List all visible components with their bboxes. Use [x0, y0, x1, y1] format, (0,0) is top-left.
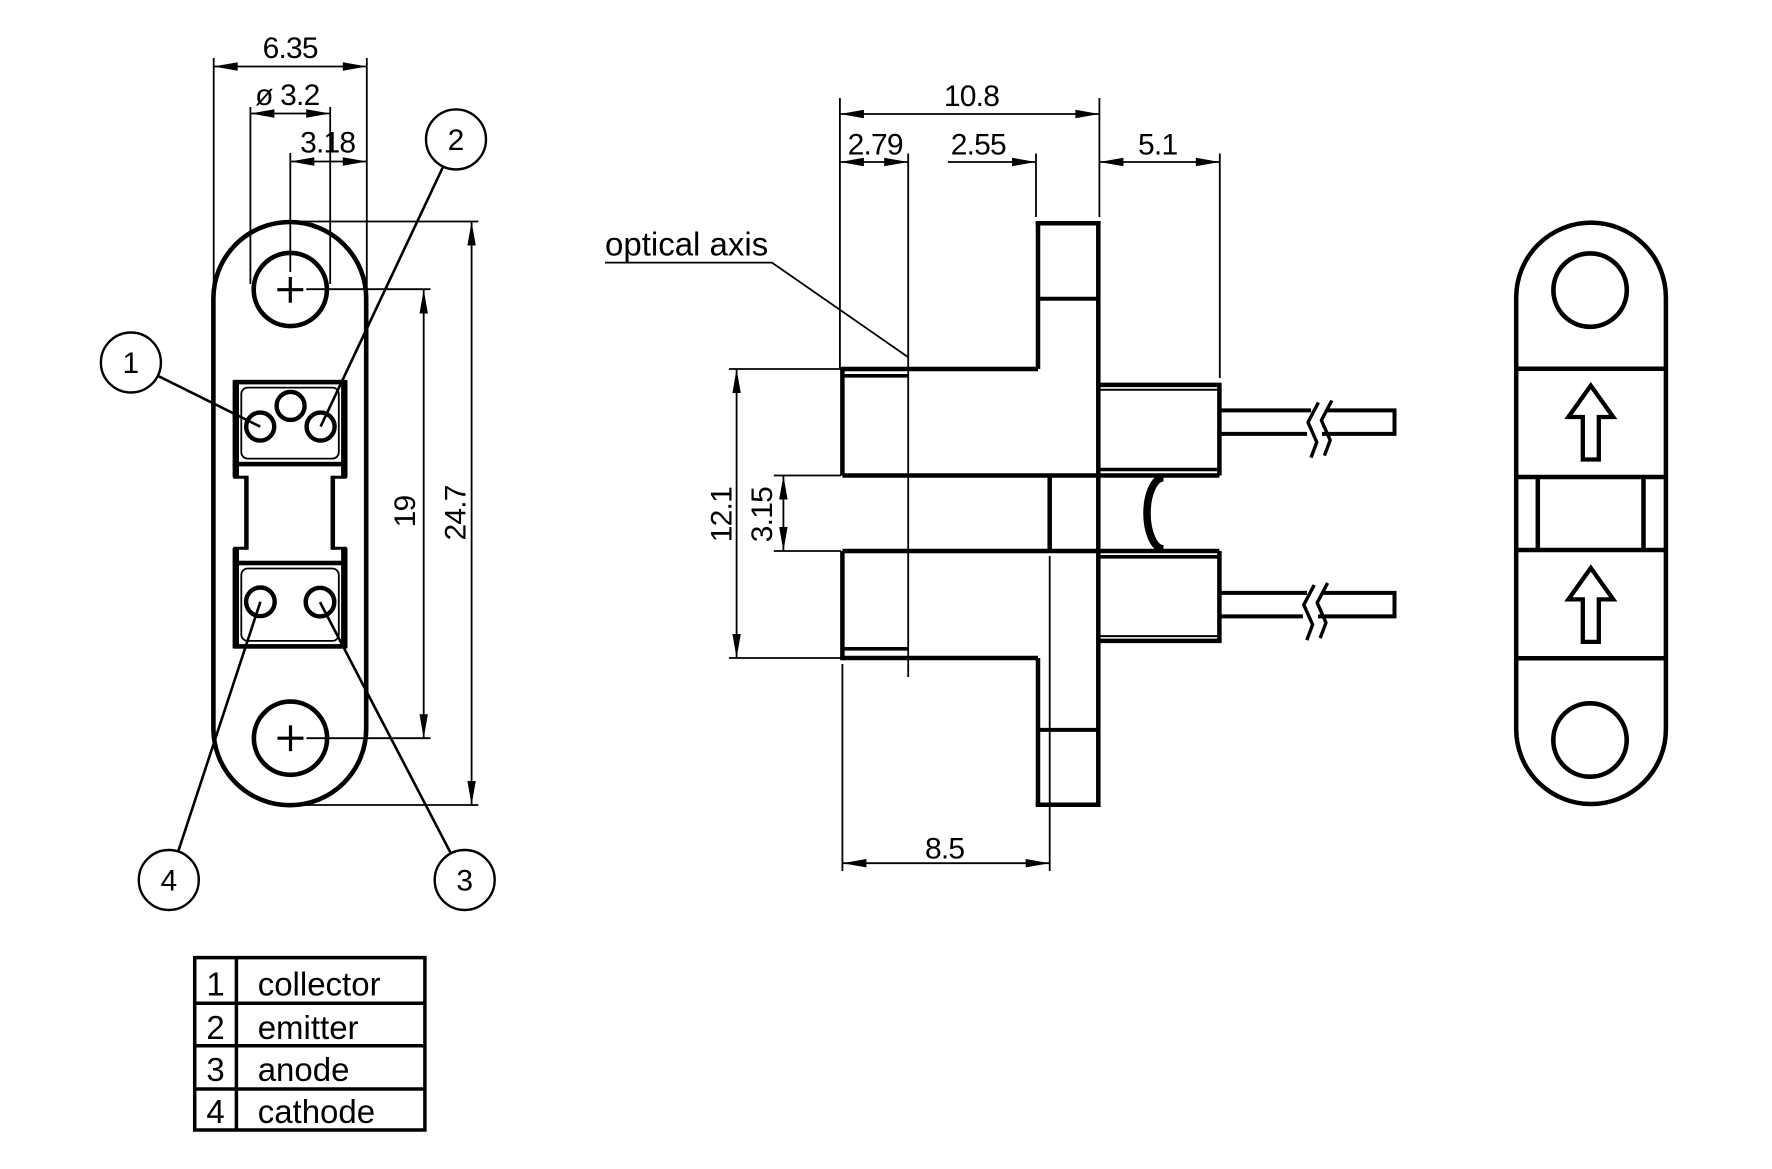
svg-text:2: 2	[206, 1009, 224, 1046]
balloon 1	[101, 333, 161, 393]
lower lead break symbol	[1304, 583, 1328, 640]
rear slot left wall	[1536, 477, 1541, 550]
slot upper inner line (prong side)	[1098, 468, 1219, 472]
top hole crosshair	[277, 277, 303, 303]
svg-text:12.1: 12.1	[705, 487, 738, 542]
pin table borders	[195, 958, 425, 1130]
svg-text:3.15: 3.15	[746, 487, 779, 542]
optical axis centerline	[907, 154, 909, 678]
dimension 2.55 arrowhead	[1012, 158, 1036, 166]
flange top end face	[1036, 221, 1101, 226]
dimension 10.8 lines	[840, 98, 1100, 368]
dimension 2.55 line and extension	[948, 154, 1036, 218]
dimension 24.7 line	[471, 222, 473, 806]
dimension 19 extension lines	[306, 289, 430, 738]
slot top edge	[842, 473, 1219, 478]
dimension 2.79 line	[840, 161, 908, 163]
dimension 24.7 extension lines	[296, 222, 478, 806]
balloon 1 leader	[158, 376, 260, 427]
dimension 5.1 lines	[1099, 154, 1219, 379]
svg-text:anode: anode	[258, 1051, 350, 1088]
upper prong inner line	[1098, 389, 1219, 391]
balloon 3 leader	[320, 602, 451, 854]
balloon 2 leader	[321, 167, 444, 427]
dimension 10.8 arrowheads	[840, 110, 1100, 118]
flange edge left vertical upper	[1036, 221, 1041, 369]
lower prong inner line	[1098, 635, 1219, 637]
svg-text:3: 3	[206, 1051, 224, 1088]
upper block inner contour	[241, 388, 338, 459]
svg-text:3.18: 3.18	[300, 127, 355, 160]
lower block pin circle right (anode)	[306, 588, 335, 617]
svg-text:3: 3	[456, 865, 473, 898]
bottom mounting hole	[254, 702, 327, 775]
dimension 3.18 arrowheads	[290, 157, 367, 165]
housing body top step line	[842, 374, 908, 378]
rear top mounting hole	[1553, 253, 1626, 326]
slot bottom edge	[842, 549, 1219, 554]
svg-text:2: 2	[448, 124, 465, 157]
dimension 3.18 lines	[290, 153, 367, 272]
dimension 12.1 arrowheads	[732, 369, 740, 658]
dimension 6.35 arrowheads	[214, 62, 367, 70]
upper lead wire	[1219, 408, 1394, 436]
dimension 8.5 lines	[842, 556, 1049, 871]
optical axis label leader	[605, 263, 909, 358]
housing body top face	[842, 367, 1038, 372]
svg-text:4: 4	[206, 1093, 224, 1130]
lower prong (detector housing)	[1098, 551, 1219, 643]
dimension o3.2 lines	[250, 107, 330, 284]
balloon 4 leader	[178, 602, 260, 852]
svg-text:1: 1	[123, 347, 140, 380]
balloon 4	[139, 850, 199, 910]
lower lead wire	[1219, 591, 1394, 619]
svg-text:6.35: 6.35	[263, 32, 318, 65]
rear slot top section line	[1516, 475, 1666, 480]
flange edge left vertical lower	[1036, 658, 1041, 805]
lower direction arrow	[1568, 568, 1613, 642]
svg-text:cathode: cathode	[258, 1093, 375, 1130]
neck between blocks	[236, 464, 344, 477]
svg-text:emitter: emitter	[258, 1009, 359, 1046]
rear body top section line	[1516, 367, 1666, 372]
flange top arc tangency line	[1038, 297, 1098, 301]
dimension 6.35 lines	[214, 58, 367, 290]
dimension 8.5 arrowheads	[842, 859, 1049, 867]
upper lead break symbol	[1308, 401, 1332, 458]
dimension 12.1 lines	[729, 369, 841, 658]
upper block pin circle left (collector)	[246, 413, 274, 441]
lower block inner contour	[241, 569, 338, 641]
flange outline (stadium shape)	[213, 222, 366, 805]
upper block pin circle right (emitter)	[307, 413, 335, 441]
top mounting hole	[254, 253, 327, 326]
svg-text:ø 3.2: ø 3.2	[255, 79, 319, 112]
upper emitter block	[236, 382, 344, 464]
svg-text:4: 4	[160, 865, 177, 898]
svg-text:2.79: 2.79	[848, 129, 903, 162]
balloon 3	[435, 850, 495, 910]
lower block pin circle left (cathode)	[246, 588, 275, 617]
upper prong (emitter housing)	[1098, 383, 1219, 476]
housing body bottom step line	[842, 647, 908, 651]
rear body bottom section line	[1516, 656, 1666, 661]
svg-text:24.7: 24.7	[439, 485, 472, 540]
bottom hole crosshair	[278, 725, 304, 751]
dimension 19 arrowheads	[420, 290, 428, 739]
dimension 3.15 arrowheads	[779, 476, 787, 552]
housing body left face lower arm	[840, 551, 845, 660]
flange bottom arc tangency line	[1038, 728, 1098, 732]
rear slot right wall	[1641, 477, 1646, 550]
upper direction arrow	[1568, 386, 1613, 460]
svg-text:2.55: 2.55	[951, 129, 1006, 162]
svg-text:collector: collector	[258, 966, 381, 1003]
dimension 3.15 lines	[774, 476, 841, 552]
svg-text:1: 1	[206, 966, 224, 1003]
upper block pin circle middle	[277, 392, 305, 420]
flange edge right vertical	[1096, 221, 1101, 805]
balloon 2	[426, 109, 486, 169]
svg-text:optical axis: optical axis	[605, 226, 768, 263]
housing body bottom face	[842, 656, 1038, 661]
flange bottom end face	[1036, 803, 1101, 808]
rear slot bottom section line	[1516, 548, 1666, 553]
slot end wall	[1047, 476, 1052, 552]
dimension 5.1 arrowheads	[1099, 158, 1219, 166]
slot lower inner line (prong side)	[1098, 555, 1219, 559]
dimension 2.79 arrowheads	[840, 158, 908, 166]
svg-text:5.1: 5.1	[1138, 129, 1177, 162]
svg-text:10.8: 10.8	[944, 80, 999, 113]
dimension 19 line	[423, 290, 425, 739]
lower detector block	[236, 563, 344, 646]
dimension o3.2 arrowheads	[250, 109, 330, 117]
lens dome arc in slot	[1147, 478, 1164, 549]
rear bottom mounting hole	[1553, 703, 1626, 776]
svg-text:19: 19	[389, 496, 422, 528]
svg-text:8.5: 8.5	[925, 832, 964, 865]
housing body left face upper arm	[840, 367, 845, 476]
rear flange outline (stadium shape)	[1516, 223, 1666, 804]
dimension 24.7 arrowheads	[467, 222, 475, 806]
